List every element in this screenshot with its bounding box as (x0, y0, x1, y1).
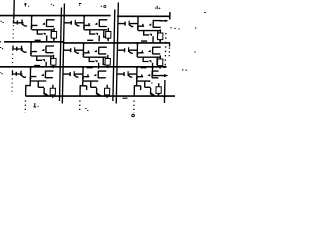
dash (34, 65, 40, 67)
output transistor row1 base bar (169, 12, 171, 20)
label top col A (24, 3, 29, 7)
transistor base bar (97, 71, 99, 79)
wire emitter to H2 (46, 36, 48, 42)
wire L-step (83, 74, 89, 77)
transistor hook (21, 46, 26, 53)
wire arrow drop (136, 77, 138, 81)
transistor emitter rail (152, 77, 158, 79)
transistor base bar (15, 72, 17, 76)
current source B3 (50, 85, 55, 98)
wire lower rail (83, 80, 98, 82)
transistor emitter rail (98, 77, 106, 79)
transistor base bar (16, 47, 18, 51)
arrowhead (82, 78, 84, 80)
wire (17, 48, 23, 50)
column bus B right line (62, 4, 64, 104)
wire (12, 73, 15, 75)
transistor Q emitter arrow (42, 49, 45, 52)
wire lower rail (32, 29, 55, 31)
transistor base bar (73, 71, 75, 76)
label right top tick (204, 12, 206, 14)
transistor collector (98, 70, 106, 72)
column bus A dotted continuation (12, 21, 14, 95)
junction dot pairB-H3 (62, 66, 64, 68)
row2 dashed continuation (168, 48, 170, 59)
wire base link (74, 73, 83, 75)
bottom transistor base bar (96, 88, 98, 95)
transistor base bar (69, 72, 71, 76)
bus stub (13, 20, 15, 24)
emitter arrow (43, 33, 46, 36)
wire L-step (31, 23, 37, 26)
cell row2 colB (63, 43, 107, 69)
emitter arrow (42, 59, 45, 62)
wire (14, 22, 17, 24)
bottom transistor base bar (150, 88, 152, 95)
transistor hook (22, 20, 27, 27)
current source C2 (105, 55, 110, 68)
transistor Q base bar (45, 19, 47, 27)
junction dot H3 end (163, 66, 165, 68)
wire collector drop (30, 42, 32, 49)
left edge dots row3 (0, 73, 3, 74)
transistor Q collector (47, 19, 55, 21)
bottom transistor emitter wire (96, 93, 101, 96)
output arrow row3 (152, 67, 164, 76)
transistor emitter arrow (147, 74, 150, 77)
output transistor row1 emitter arrow wire (160, 20, 166, 22)
bottom transistor emitter arrow (96, 93, 100, 96)
collector step (51, 56, 53, 63)
dash (35, 39, 41, 41)
transistor Q emitter arrow (42, 22, 45, 25)
transistor Q emitter rail (46, 26, 54, 28)
output arrowhead row3 (164, 74, 169, 77)
wire lower rail (31, 80, 47, 82)
wire drop (30, 52, 32, 56)
arrowhead (29, 78, 31, 80)
transistor step (37, 30, 43, 34)
junction dot (30, 66, 32, 68)
bottom transistor base bar (43, 88, 45, 95)
row bus H1 (0, 15, 111, 17)
label bottom colC (132, 114, 135, 117)
current source D2 (157, 55, 162, 68)
transistor Q emitter rail (46, 52, 54, 54)
column bus D solid bottom (163, 80, 165, 103)
collector step (51, 30, 53, 37)
wire (13, 48, 16, 50)
column bus B left line (59, 8, 61, 102)
cell row1 colB (64, 15, 108, 41)
bottom dotted continuation colC (133, 101, 135, 114)
arrowhead (30, 27, 32, 29)
transistor emitter arrow (94, 74, 97, 77)
cell row3 colA (partial at left edge) (12, 66, 54, 96)
row 1 input feed wire (column bus A top) (13, 0, 15, 19)
bus stub (12, 46, 14, 50)
cell row3 colC (upper part) (116, 66, 158, 96)
current source B2 (51, 55, 56, 68)
left edge dots row1 (1, 21, 4, 22)
current source D1 (158, 29, 163, 42)
label bottom colB dots (85, 109, 88, 111)
current source C3 (104, 85, 109, 98)
right dots row2 (182, 52, 196, 70)
right dot row1 (195, 27, 196, 29)
transistor base bar (151, 71, 153, 79)
wire base feed (117, 73, 124, 75)
wire L-step (137, 74, 143, 77)
wire base link (128, 73, 137, 75)
row2 right end tick (169, 43, 171, 47)
wire jog drops (80, 81, 87, 96)
bottom dotted continuation colB (79, 101, 81, 113)
left edge dots row2 (0, 42, 3, 49)
wire arrow drop (82, 77, 84, 81)
wire L-step (30, 74, 36, 77)
bottom transistor collector (145, 81, 151, 87)
transistor Q base bar (45, 46, 47, 54)
cell row3 colB (upper part) (62, 66, 106, 96)
output transistor row1 arrowhead (165, 20, 168, 22)
wire jog drops (134, 81, 141, 96)
junction dot busD-H4 (163, 95, 165, 97)
wire (16, 73, 22, 75)
column bus C right line (116, 3, 118, 104)
cell row1 colC (118, 16, 162, 42)
row bus H4 (bottom rail) (25, 95, 175, 97)
junction dot pairC-H1 (117, 15, 119, 17)
current source D3 (156, 83, 161, 96)
transistor collector (152, 70, 158, 72)
junction dot pairB-H1 (63, 15, 65, 17)
transistor step (37, 56, 43, 60)
column bus C left line (113, 10, 115, 102)
bus stub (11, 71, 13, 75)
wire jog left (26, 81, 31, 96)
junction dot pairC-H3 (116, 66, 118, 68)
junction dot (31, 15, 33, 17)
label top col C dot (101, 5, 102, 7)
arrowhead (136, 78, 138, 80)
cell row2 colA (partial at left edge) (13, 41, 55, 66)
junction dot (136, 66, 138, 68)
wire collector drop (82, 67, 84, 74)
transistor Q collector (46, 70, 54, 72)
label top col D (155, 6, 161, 9)
bottom transistor emitter wire (44, 93, 49, 96)
junction dot (82, 66, 84, 68)
dot near output transistor (159, 7, 160, 9)
transistor Q base bar (44, 71, 46, 79)
transistor Q emitter arrow (41, 74, 44, 77)
arrowhead (30, 53, 32, 55)
junction dot pairC-H2 (116, 42, 118, 44)
wire drop (29, 77, 31, 81)
transistor base bar (127, 71, 129, 76)
bottom transistor emitter arrow (150, 93, 154, 96)
wire lower rail (31, 55, 54, 57)
cell row1 colA (partial at left edge) (13, 15, 55, 41)
cell row2 colC (117, 43, 161, 69)
label bottom colA (33, 103, 38, 107)
wire lower rail (137, 80, 150, 82)
transistor emitter (128, 75, 132, 77)
bottom transistor emitter wire (150, 93, 155, 96)
transistor Q emitter rail (45, 77, 53, 79)
wire (18, 22, 24, 24)
row bus H1 right segment (117, 15, 170, 17)
current source B1 (51, 28, 56, 41)
current source C1 (106, 28, 111, 41)
wire drop (30, 25, 32, 29)
tick (141, 74, 143, 76)
wire base feed (63, 73, 70, 75)
bottom dash right (122, 97, 127, 99)
wire L-step (31, 49, 37, 52)
bottom transistor collector (38, 81, 44, 87)
label bottom left dots (149, 82, 153, 84)
tick (87, 74, 89, 76)
transistor emitter (74, 75, 78, 77)
bottom transistor emitter arrow (44, 93, 48, 96)
row bus H3 (0, 66, 167, 68)
junction dot (30, 41, 32, 43)
top-right dots row1 (170, 28, 179, 29)
wire collector drop (136, 67, 138, 74)
bottom transistor collector (91, 81, 97, 87)
wire emitter to H3 (45, 62, 47, 67)
row bus H2 (4, 41, 63, 43)
label top col C box (104, 6, 106, 8)
transistor Q collector (46, 45, 54, 47)
junction dot pairB-H2 (62, 42, 64, 44)
transistor base bar (123, 72, 125, 76)
column bus D (dashed continuation) (164, 33, 167, 66)
transistor hook (21, 71, 26, 78)
wire collector drop (29, 67, 31, 74)
wire collector drop (31, 16, 33, 23)
label top col B (79, 4, 81, 6)
transistor base bar (16, 21, 18, 25)
row bus H2 right segment (63, 42, 170, 44)
label top col B dots (51, 4, 54, 5)
bottom dotted continuation colA (24, 101, 26, 114)
